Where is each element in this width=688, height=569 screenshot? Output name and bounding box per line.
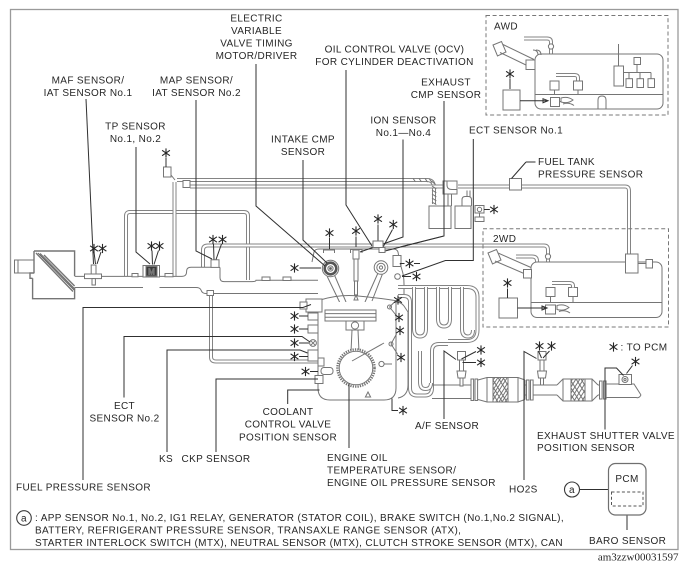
svg-text:2WD: 2WD [493,234,516,245]
svg-text:No.1—No.4: No.1—No.4 [376,128,431,139]
svg-text:INTAKE CMP: INTAKE CMP [271,134,335,145]
svg-text:ELECTRIC: ELECTRIC [230,13,282,24]
svg-text:PCM: PCM [615,474,638,485]
svg-text:MAP SENSOR/: MAP SENSOR/ [160,75,233,86]
svg-text:A/F SENSOR: A/F SENSOR [415,421,479,432]
svg-text:POSITION SENSOR: POSITION SENSOR [537,443,635,454]
svg-text:ION SENSOR: ION SENSOR [370,115,436,126]
svg-text:am3zzw00031597: am3zzw00031597 [598,552,679,564]
svg-text:COOLANT: COOLANT [263,407,314,418]
svg-text:EXHAUST: EXHAUST [421,77,471,88]
svg-text:MOTOR/DRIVER: MOTOR/DRIVER [216,51,298,62]
svg-text:FOR CYLINDER DEACTIVATION: FOR CYLINDER DEACTIVATION [315,57,473,68]
svg-text:a: a [569,485,575,496]
svg-text:SENSOR No.2: SENSOR No.2 [90,413,160,424]
svg-text:CONTROL VALVE: CONTROL VALVE [245,420,332,431]
svg-text:: TO PCM: : TO PCM [621,342,668,353]
svg-text:CKP SENSOR: CKP SENSOR [182,454,251,465]
svg-text:BARO SENSOR: BARO SENSOR [589,536,666,547]
svg-text:No.1, No.2: No.1, No.2 [110,134,161,145]
svg-text:VARIABLE: VARIABLE [231,26,282,37]
svg-text:IAT SENSOR No.2: IAT SENSOR No.2 [152,88,241,99]
svg-text:a: a [21,514,27,525]
svg-text:BATTERY, REFRIGERANT PRESSURE: BATTERY, REFRIGERANT PRESSURE SENSOR, TR… [35,525,461,536]
svg-text:: APP SENSOR No.1, No.2, IG1 R: : APP SENSOR No.1, No.2, IG1 RELAY, GENE… [35,513,564,524]
svg-text:FUEL PRESSURE SENSOR: FUEL PRESSURE SENSOR [16,483,151,494]
svg-text:HO2S: HO2S [509,484,538,495]
svg-text:TEMPERATURE SENSOR/: TEMPERATURE SENSOR/ [327,466,456,477]
svg-text:CMP SENSOR: CMP SENSOR [411,90,482,101]
svg-text:ENGINE OIL PRESSURE SENSOR: ENGINE OIL PRESSURE SENSOR [327,478,496,489]
svg-text:ECT SENSOR No.1: ECT SENSOR No.1 [469,125,563,136]
svg-text:KS: KS [159,454,173,465]
svg-text:STARTER INTERLOCK SWITCH (MTX): STARTER INTERLOCK SWITCH (MTX), NEUTRAL … [35,538,563,549]
svg-text:FUEL TANK: FUEL TANK [538,157,595,168]
svg-text:SENSOR: SENSOR [281,147,325,158]
svg-text:M: M [148,268,155,277]
svg-text:ECT: ECT [114,401,135,412]
svg-text:OIL CONTROL VALVE (OCV): OIL CONTROL VALVE (OCV) [325,44,465,55]
svg-text:IAT SENSOR No.1: IAT SENSOR No.1 [44,88,133,99]
svg-text:VALVE TIMING: VALVE TIMING [220,38,293,49]
svg-text:ENGINE OIL: ENGINE OIL [327,453,388,464]
svg-text:EXHAUST SHUTTER VALVE: EXHAUST SHUTTER VALVE [537,431,675,442]
svg-text:TP SENSOR: TP SENSOR [105,121,166,132]
svg-text:POSITION SENSOR: POSITION SENSOR [239,432,337,443]
svg-text:MAF SENSOR/: MAF SENSOR/ [52,75,125,86]
svg-text:PRESSURE SENSOR: PRESSURE SENSOR [538,169,643,180]
svg-text:AWD: AWD [494,21,518,32]
